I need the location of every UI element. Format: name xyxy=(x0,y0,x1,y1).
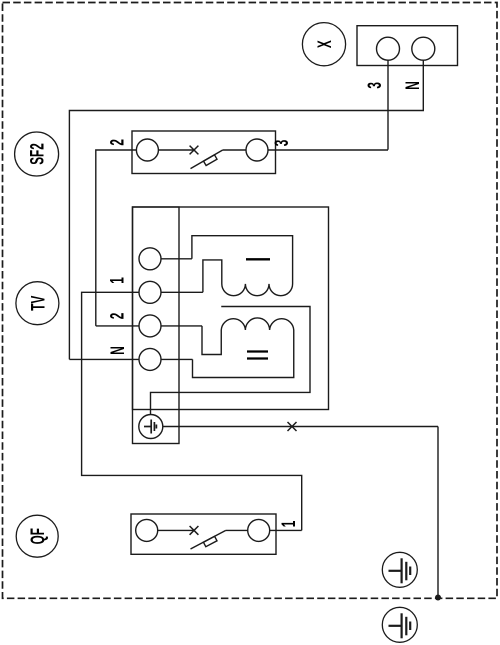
TV ground terminal earth symbol xyxy=(144,420,156,434)
designator circle X xyxy=(302,23,345,66)
wire QF right to bus 1 xyxy=(270,529,302,531)
QF internal wire right xyxy=(226,529,248,531)
TV terminal 4 (label N) xyxy=(139,348,161,370)
breaker SF2 box xyxy=(132,131,276,174)
PE wire from TV ground terminal xyxy=(163,426,438,428)
wire X:N down, left, down to TV N xyxy=(69,60,423,359)
TV internal stub row3 xyxy=(161,325,202,327)
terminal X:3 xyxy=(377,37,400,60)
TV terminal strip box xyxy=(133,207,180,444)
SF2 breaker rectangle xyxy=(204,155,218,166)
SF2 fixed contact X xyxy=(190,146,199,155)
TV internal stub row2 xyxy=(161,291,203,293)
svg-text:3: 3 xyxy=(272,140,292,147)
earth symbol circle (outside enclosure) xyxy=(382,607,417,642)
QF left terminal circle xyxy=(136,519,158,541)
wire stub node N to TV xyxy=(69,358,139,360)
wire SF2 left (node 2) xyxy=(96,150,137,326)
terminal block X box xyxy=(357,26,458,66)
svg-text:2: 2 xyxy=(108,139,128,146)
svg-text:TV: TV xyxy=(29,295,49,310)
SF2 internal wire left xyxy=(158,149,194,151)
breaker QF box xyxy=(131,514,276,554)
svg-text:SF2: SF2 xyxy=(28,143,48,165)
winding I xyxy=(192,236,293,296)
junction dot on enclosure xyxy=(435,595,441,601)
designator circle TV xyxy=(16,282,59,325)
svg-text:QF: QF xyxy=(28,528,48,545)
SF2 right terminal circle xyxy=(246,139,268,161)
TV terminal 1 (top, unlabeled) xyxy=(139,248,161,270)
screen to ground terminal wire xyxy=(151,307,311,415)
svg-text:X: X xyxy=(315,40,335,48)
earth symbol circle (inside enclosure) xyxy=(382,552,417,587)
X mark on PE wire xyxy=(288,422,297,431)
label I (winding 1) xyxy=(246,258,270,260)
svg-text:2: 2 xyxy=(108,313,128,320)
svg-text:1: 1 xyxy=(279,521,299,528)
transformer TV outer box xyxy=(133,207,329,410)
winding II xyxy=(193,318,294,378)
QF right terminal circle xyxy=(248,519,270,541)
TV internal stub row1 xyxy=(161,258,192,260)
svg-text:N: N xyxy=(108,346,128,355)
SF2 left terminal circle xyxy=(136,139,158,161)
wire bus 1: TV terminal to QF xyxy=(82,292,302,530)
QF blade xyxy=(191,530,226,549)
terminal X:N xyxy=(412,37,435,60)
SF2 internal wire right xyxy=(223,149,246,151)
wire X:3 down to SF2 xyxy=(387,60,389,150)
TV terminal 2 (label 1) xyxy=(139,281,161,303)
TV ground terminal circle xyxy=(139,415,163,439)
PE wire drop to enclosure xyxy=(437,427,439,598)
svg-text:3: 3 xyxy=(366,82,386,89)
TV internal stub row4 xyxy=(161,358,193,360)
svg-text:1: 1 xyxy=(108,277,128,284)
svg-text:N: N xyxy=(403,81,423,90)
designator circle SF2 xyxy=(15,132,59,176)
wire stub node 2 to TV xyxy=(96,325,139,327)
wire SF2 right to riser (node 3) xyxy=(268,149,388,151)
QF breaker rectangle xyxy=(203,536,217,546)
QF fixed contact X xyxy=(190,526,199,535)
SF2 blade xyxy=(191,150,223,169)
designator circle QF xyxy=(16,515,58,557)
TV terminal 3 (label 2) xyxy=(139,315,161,337)
label II (winding 2) xyxy=(247,352,268,359)
QF internal wire left xyxy=(158,529,194,531)
